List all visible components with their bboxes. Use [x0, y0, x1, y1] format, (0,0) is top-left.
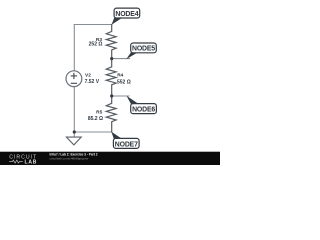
svg-text:R5: R5	[96, 109, 102, 115]
svg-text:NODE6: NODE6	[132, 107, 155, 114]
svg-text:252 Ω: 252 Ω	[89, 42, 103, 48]
svg-text:NODE4: NODE4	[115, 11, 138, 18]
svg-text:LAB: LAB	[25, 159, 38, 165]
svg-text:7.52 V: 7.52 V	[85, 79, 100, 85]
svg-text:85.2 Ω: 85.2 Ω	[88, 116, 103, 122]
svg-text:NODE5: NODE5	[132, 45, 155, 52]
svg-text:R4: R4	[117, 73, 123, 79]
svg-text:NODE7: NODE7	[115, 141, 138, 148]
svg-text:V2: V2	[85, 72, 91, 78]
svg-text:552 Ω: 552 Ω	[117, 79, 131, 85]
svg-text:circuitlab.com/c48b8tqtqvzw: circuitlab.com/c48b8tqtqvzw	[50, 156, 89, 160]
